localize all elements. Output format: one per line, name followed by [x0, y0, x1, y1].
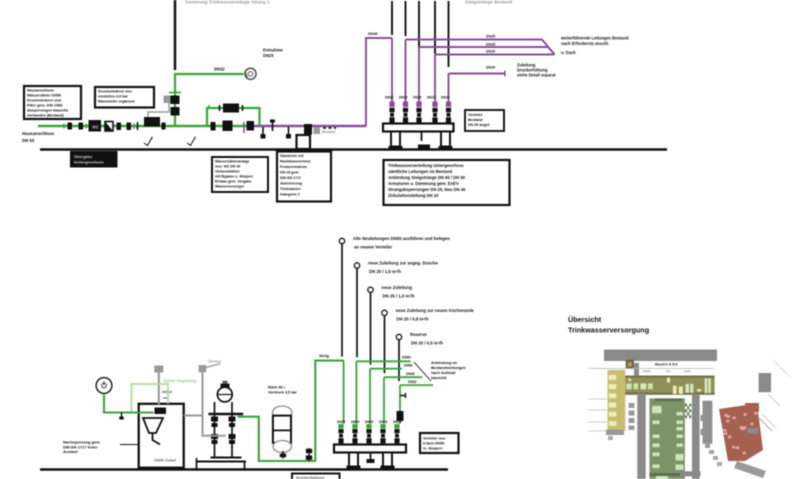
- pump dome (pressure vessel of pump): [217, 381, 232, 402]
- svg-text:DN20: DN20: [393, 420, 402, 424]
- svg-text:DN20: DN20: [365, 420, 374, 424]
- manifold 2 valve stem 1: [338, 424, 343, 443]
- svg-text:Filter gem. DIN 1988: Filter gem. DIN 1988: [27, 104, 62, 108]
- svg-text:Überlauf: Überlauf: [208, 359, 222, 364]
- cut-off title text top-left: [185, 0, 270, 5]
- black riser continuation above tee: [174, 0, 177, 70]
- map: label row under bar: [655, 363, 678, 367]
- annotation branch 5: [517, 63, 556, 78]
- label DN32 on top run: [214, 67, 225, 72]
- fill note marks: [162, 390, 173, 398]
- svg-text:neue Zuleitung zur neuen Küche: neue Zuleitung zur neuen Küchenzeile: [396, 308, 475, 313]
- manifold 2 valve stem 2: [352, 424, 357, 443]
- svg-text:Verteiler: Verteiler: [468, 113, 483, 117]
- DN text row above manifold 1 valves: [385, 96, 450, 100]
- connection point circle 3: [368, 287, 373, 292]
- bypass loop (green): [207, 108, 260, 126]
- gray device right of standpipe: [314, 127, 337, 134]
- info box right of manifold 2: [420, 433, 459, 453]
- black label plate on ground (Kellergeschoss): [70, 151, 118, 168]
- svg-text:DN20: DN20: [427, 96, 436, 100]
- map: faint line under bar: [590, 368, 713, 371]
- svg-text:DN20: DN20: [441, 96, 450, 100]
- bypass water meter: [208, 104, 243, 113]
- svg-text:DIN EN 1717: DIN EN 1717: [280, 176, 301, 180]
- riser pipe 1 (black, from floors above): [391, 1, 393, 35]
- map title: [568, 315, 649, 335]
- wall hydrant symbol: [245, 68, 256, 79]
- riser pipe 2 (black, from floors above): [405, 1, 407, 36]
- svg-text:Sanierung Trinkwasseranlage S: Sanierung Trinkwasseranlage Strang 1: [185, 0, 270, 5]
- riser drop 1 (purple): [391, 38, 393, 103]
- manifold 1 bar: [383, 124, 454, 132]
- DN text row above manifold 2 valves: [337, 420, 402, 424]
- planned bypass (pale green): [132, 379, 197, 413]
- map: gray block right of corridor 2: [701, 401, 713, 444]
- svg-text:DN25: DN25: [263, 53, 274, 58]
- riser pipe 4 (black, from floors above): [434, 1, 436, 54]
- svg-text:bauseits: bauseits: [431, 375, 447, 380]
- map: small gray blocks bottom-left: [606, 430, 624, 441]
- hydrant label: [263, 48, 284, 59]
- info box top-left 1: [24, 86, 81, 119]
- svg-text:DN 25 / 1,5 m³/h: DN 25 / 1,5 m³/h: [369, 269, 401, 274]
- manifold 1 valve stem 4: [432, 102, 437, 124]
- vessel label: [268, 385, 297, 395]
- map: bottom-left wall strip of green: [680, 471, 701, 476]
- manifold 2 bar: [334, 445, 406, 453]
- flow direction tick 1: [144, 136, 153, 146]
- expansion vessel bottom cap: [273, 441, 291, 453]
- svg-text:Hausanschluss: Hausanschluss: [22, 131, 55, 136]
- left annotation schematic 2: [63, 440, 140, 455]
- riser valve (upper): [171, 96, 180, 105]
- svg-text:DN25: DN25: [486, 35, 495, 39]
- shut-off valve V1: [64, 123, 72, 130]
- green drop 2 to manifold 2: [356, 361, 410, 423]
- svg-text:Strangabsperrungen DN 25, Neu: Strangabsperrungen DN 25, Neu DN 40: [388, 187, 466, 192]
- svg-text:Armaturen u. Dämmung gem. EnEV: Armaturen u. Dämmung gem. EnEV: [388, 181, 459, 186]
- pump column left: [211, 402, 218, 458]
- map: gray bar far right top: [759, 373, 771, 392]
- riser valve (lower): [171, 107, 180, 116]
- green drop 4 to manifold 2: [384, 377, 422, 423]
- break tank cabinet: [139, 404, 184, 468]
- valve V4: [127, 123, 135, 131]
- svg-text:WZ: WZ: [92, 125, 99, 130]
- purple riser to roof manifold: [366, 38, 392, 126]
- svg-text:DN40: DN40: [368, 32, 378, 36]
- riser drop 4 (purple): [434, 55, 436, 103]
- svg-text:DN 65 angef.: DN 65 angef.: [468, 123, 490, 127]
- green drop 1 to manifold 2: [343, 361, 345, 424]
- svg-text:MAG 80 l: MAG 80 l: [268, 385, 285, 390]
- svg-text:Entnahme: Entnahme: [263, 48, 284, 53]
- svg-text:sämtliche Leitungen im Bestand: sämtliche Leitungen im Bestand: [388, 169, 453, 174]
- inlet float valve (black box): [155, 408, 167, 415]
- pump feet: [197, 458, 247, 469]
- riser line 5 (black): [398, 340, 400, 381]
- svg-text:an neuem Verteiler: an neuem Verteiler: [354, 245, 393, 250]
- svg-text:DN20: DN20: [351, 420, 360, 424]
- drain stem D3: [286, 127, 291, 139]
- flow direction tick 2: [187, 136, 196, 146]
- Steig label: [319, 353, 330, 358]
- leader diagonal to annotation: [414, 362, 431, 381]
- map: diagonal paths right: [758, 360, 790, 431]
- svg-text:Anbindung Steigstränge DN 65 /: Anbindung Steigstränge DN 65 / DN 50: [388, 175, 466, 180]
- cut-off title text top-right: [465, 0, 512, 5]
- DN label on branch 2: [486, 35, 495, 39]
- pressure gauge: [96, 378, 112, 394]
- svg-text:DN 20 / 0,8 m³/h: DN 20 / 0,8 m³/h: [397, 316, 429, 321]
- map: street diagonal bottom: [734, 461, 766, 478]
- svg-text:Auslauf: Auslauf: [63, 449, 78, 454]
- tap tick D2: [270, 120, 275, 132]
- svg-text:Trinkwasser: Trinkwasser: [280, 187, 301, 191]
- svg-text:DN40: DN40: [406, 372, 415, 376]
- connection point circle 5: [396, 334, 401, 339]
- manifold 1 valve stem 1: [389, 102, 394, 124]
- annotation box A below ground: [212, 157, 268, 192]
- meter on main under bypass: [223, 121, 233, 132]
- big annotation box under manifold 1: [384, 160, 510, 205]
- riser drop 3 (purple): [418, 47, 420, 103]
- manifold 1 valve stem 5: [446, 102, 451, 124]
- ground line schematic 1: [40, 148, 667, 151]
- svg-text:Manometer ergänzen: Manometer ergänzen: [98, 100, 136, 104]
- drain stem D1: [261, 127, 266, 139]
- svg-text:neue Zuleitung zur angeg. Dusc: neue Zuleitung zur angeg. Dusche: [368, 261, 439, 266]
- map: top gray building bar: [604, 350, 717, 362]
- svg-text:DN20: DN20: [337, 420, 346, 424]
- DN label on branch 4: [486, 50, 495, 54]
- manifold 1 valve stem 3: [416, 102, 421, 124]
- svg-text:m. Absperr.: m. Absperr.: [423, 447, 443, 451]
- main cold water pipe (green): [38, 125, 252, 127]
- valve on discharge line: [306, 448, 312, 461]
- green pump discharge line: [238, 417, 316, 461]
- connection point circle 4: [382, 310, 387, 315]
- svg-text:vorhanden (Bestand): vorhanden (Bestand): [27, 114, 65, 118]
- relief line (gray): [148, 96, 174, 118]
- small drain on inlet: [119, 413, 123, 420]
- svg-text:x: x: [208, 104, 210, 108]
- purple branch line 2: [406, 40, 555, 55]
- svg-text:weiterführende Leitungen Besta: weiterführende Leitungen Bestand: [560, 36, 629, 41]
- green drop 3 to manifold 2: [370, 369, 402, 424]
- connection point circle 1: [339, 238, 344, 243]
- manifold 2 left leg: [347, 453, 361, 470]
- valve on main under bypass (right): [244, 121, 254, 133]
- annotation branches 2-4: [560, 36, 629, 56]
- vessel drain valve: [280, 451, 286, 459]
- svg-text:DN 50: DN 50: [22, 138, 35, 143]
- svg-text:Standrohr mit: Standrohr mit: [280, 154, 304, 158]
- svg-text:Trinkwasserversorgung: Trinkwasserversorgung: [568, 326, 649, 335]
- svg-text:Druckminderer neu: Druckminderer neu: [98, 90, 133, 94]
- vent pipe gray 2: [184, 359, 226, 436]
- DN label on branch 3: [486, 43, 495, 47]
- shut-off valve V2: [79, 123, 87, 130]
- drain tap T1: [137, 122, 139, 130]
- valve V3: [117, 123, 122, 131]
- manifold 1 left leg: [389, 132, 403, 150]
- svg-text:DN 25 / 1,0 m³/h: DN 25 / 1,0 m³/h: [383, 293, 415, 298]
- svg-text:DN 20 / 0,5 m³/h: DN 20 / 0,5 m³/h: [411, 341, 443, 346]
- svg-text:DN25: DN25: [486, 43, 495, 47]
- manifold 2 valve stem 3: [366, 424, 371, 443]
- map: stairs checker: [685, 404, 691, 419]
- standpipe block on main: [297, 124, 313, 149]
- info box top-left 2: [95, 87, 154, 108]
- annotation box B below ground: [277, 152, 331, 202]
- svg-text:Zirkulationsleitung DN 20: Zirkulationsleitung DN 20: [388, 193, 439, 198]
- purple branch line 5: [449, 71, 506, 77]
- purple branch line 4: [435, 54, 555, 56]
- svg-text:DN 25 gem.: DN 25 gem.: [280, 171, 300, 175]
- ground line schematic 2: [40, 468, 448, 470]
- manifold 2 right leg: [381, 453, 395, 470]
- map: corridor 1: [637, 394, 645, 479]
- annotation for green branches: [431, 360, 466, 380]
- svg-text:DN20: DN20: [413, 96, 422, 100]
- pump column right: [229, 402, 236, 458]
- label at purple riser top: [368, 32, 378, 36]
- riser line 1 (black): [341, 244, 343, 357]
- map: olive horizontal building: [625, 376, 714, 395]
- svg-text:Steigstränge Bestand: Steigstränge Bestand: [465, 0, 512, 5]
- svg-text:Bestand: Bestand: [322, 130, 335, 134]
- svg-text:Verbundzähler: Verbundzähler: [215, 170, 240, 174]
- DN50 note in cabinet: [155, 459, 177, 463]
- svg-text:DN32: DN32: [408, 380, 417, 384]
- svg-text:Alle Neuleitungen DN50 ausführ: Alle Neuleitungen DN50 ausführen und bel…: [353, 236, 450, 241]
- expansion vessel top cap: [273, 406, 292, 419]
- bottom cut-off box: [292, 474, 340, 479]
- map: yellow building: [608, 370, 626, 431]
- vent pipe gray 1: [154, 366, 163, 405]
- purple branch line 3: [419, 47, 555, 54]
- svg-text:DN20: DN20: [385, 96, 394, 100]
- svg-text:DN50 Zulauf: DN50 Zulauf: [155, 459, 177, 463]
- riser label 4: [396, 308, 475, 322]
- map: red building: [719, 403, 763, 461]
- manifold 1 right leg: [439, 132, 453, 150]
- map: green building: [649, 398, 685, 479]
- map: gray block near red: [748, 428, 759, 434]
- riser label 3: [382, 285, 415, 299]
- svg-text:Probeentnahme: Probeentnahme: [280, 165, 307, 169]
- svg-text:DN50: DN50: [404, 364, 413, 368]
- riser label 2: [368, 261, 439, 275]
- svg-text:DN20: DN20: [486, 50, 495, 54]
- green riser (Steigleitung): [315, 361, 343, 461]
- svg-text:neue Zuleitung: neue Zuleitung: [382, 285, 413, 290]
- svg-text:Rückflussverhind.: Rückflussverhind.: [280, 160, 311, 164]
- svg-text:Vordruck 3,5 bar: Vordruck 3,5 bar: [268, 390, 297, 394]
- small info box right of manifold 1: [465, 110, 504, 131]
- svg-text:DN20: DN20: [399, 96, 408, 100]
- manifold 1 valve stem 2: [403, 102, 408, 124]
- svg-text:Reserve: Reserve: [410, 332, 427, 337]
- svg-text:Übergabe: Übergabe: [74, 154, 93, 159]
- valve on main under bypass (left): [211, 122, 216, 131]
- svg-text:Absicherung: Absicherung: [280, 182, 302, 186]
- backflow preventer on drop 5: [397, 393, 406, 421]
- svg-text:Trinkwasserverteilung Unterges: Trinkwasserverteilung Untergeschoss: [388, 163, 464, 168]
- manifold 1 center stub: [418, 132, 430, 150]
- svg-text:Druckminderer und: Druckminderer und: [27, 99, 62, 103]
- map: left survey lines: [588, 369, 607, 432]
- water meter M1: [89, 120, 102, 132]
- expansion vessel body: [273, 416, 291, 443]
- svg-text:Übersicht: Übersicht: [568, 315, 602, 324]
- manifold 2 valve stem 4: [380, 424, 385, 443]
- riser pipe 5 (black, from floors above): [448, 1, 450, 67]
- riser pipe 3 (black, from floors above): [418, 1, 420, 50]
- tank funnel: [143, 418, 163, 445]
- pressure reducer (black box on line): [144, 117, 166, 130]
- svg-text:Bestand: Bestand: [468, 118, 483, 122]
- svg-text:Hausanschluss: Hausanschluss: [27, 89, 54, 93]
- svg-text:einstellen 4,0 bar: einstellen 4,0 bar: [98, 95, 128, 99]
- svg-text:DN32: DN32: [214, 67, 225, 72]
- svg-text:DN20: DN20: [379, 420, 388, 424]
- riser line 2 (black): [356, 268, 358, 357]
- svg-text:2: 2: [194, 136, 196, 140]
- svg-text:Absperrungen bauseits: Absperrungen bauseits: [27, 109, 68, 113]
- main pipe continuation (purple): [250, 125, 366, 127]
- svg-text:6-fach DN50: 6-fach DN50: [423, 442, 444, 446]
- svg-text:siehe Detail separat: siehe Detail separat: [517, 73, 556, 78]
- svg-text:Kellergeschoss: Kellergeschoss: [74, 160, 104, 165]
- svg-text:DN20: DN20: [486, 66, 495, 70]
- svg-text:neu: WZ DN 40: neu: WZ DN 40: [215, 165, 240, 169]
- svg-text:u. Dach: u. Dach: [561, 50, 576, 55]
- green inlet line to tank: [104, 393, 154, 412]
- manifold 2 center drain stub: [367, 453, 375, 464]
- green top run to hydrant: [175, 73, 244, 75]
- DN labels on green branches: [402, 356, 417, 385]
- svg-text:Bauteil A EG: Bauteil A EG: [655, 363, 678, 367]
- map: corridor 2: [692, 394, 700, 479]
- svg-text:nach Erfordernis anschl.: nach Erfordernis anschl.: [561, 41, 609, 46]
- map: diagonal stair path: [705, 444, 722, 466]
- svg-text:Option Umgehung: Option Umgehung: [163, 379, 197, 383]
- map: olive dot: [626, 360, 634, 369]
- riser drop 2 (purple): [405, 40, 407, 103]
- DN label on branch 5: [486, 66, 495, 70]
- riser label 1: [353, 236, 450, 250]
- svg-text:mit Bypass u. Absperr.: mit Bypass u. Absperr.: [215, 175, 254, 179]
- map: connector bar-to-building: [634, 363, 639, 376]
- manifold 2 valve stem 5: [394, 424, 399, 443]
- svg-text:Wasserzähler DN50: Wasserzähler DN50: [27, 94, 61, 98]
- svg-text:Steig.: Steig.: [319, 353, 330, 358]
- pump header bar: [208, 413, 243, 415]
- map: small gray rooms column: [629, 403, 635, 430]
- svg-text:DN50: DN50: [402, 356, 411, 360]
- svg-text:2: 2: [151, 136, 153, 140]
- label Hausanschluss: [22, 131, 55, 143]
- svg-text:Einbau gem. Vorgabe: Einbau gem. Vorgabe: [215, 180, 251, 184]
- svg-text:Wasserversorger: Wasserversorger: [215, 185, 245, 189]
- svg-text:Kategorie 2: Kategorie 2: [280, 193, 300, 197]
- riser line 4 (black): [384, 316, 386, 374]
- green riser at tee: [169, 73, 181, 127]
- svg-text:Wasserzähleranlage: Wasserzähleranlage: [215, 160, 249, 164]
- riser line 3 (black): [370, 293, 372, 365]
- svg-text:Verteiler neu: Verteiler neu: [423, 437, 446, 441]
- riser label 5: [410, 332, 443, 346]
- filter F1: [105, 122, 113, 132]
- green drop 5 to manifold 2: [400, 385, 433, 423]
- riser drop 5 (purple): [448, 74, 450, 103]
- connection point circle 2: [354, 263, 359, 268]
